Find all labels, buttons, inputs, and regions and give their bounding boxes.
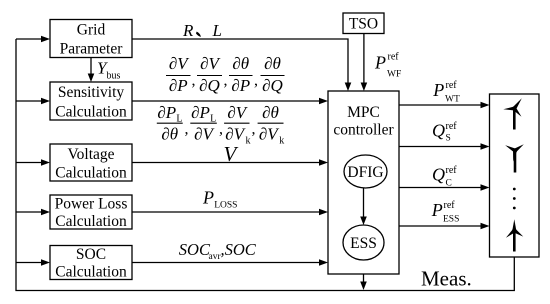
svg-text:DFIG: DFIG	[347, 164, 383, 181]
svg-text:,: ,	[254, 72, 258, 89]
svg-text:Calculation: Calculation	[55, 264, 127, 281]
svg-text:P: P	[202, 188, 214, 208]
svg-text:L: L	[212, 21, 222, 40]
svg-text:Q: Q	[432, 121, 445, 141]
svg-text:R: R	[182, 21, 194, 40]
svg-text:Meas.: Meas.	[421, 267, 472, 291]
svg-text:WF: WF	[387, 70, 401, 80]
svg-text:ref: ref	[444, 200, 456, 211]
svg-text:∂P: ∂P	[169, 76, 188, 95]
svg-text:L: L	[176, 114, 182, 125]
svg-text:LOSS: LOSS	[214, 201, 237, 211]
svg-text:L: L	[210, 114, 216, 125]
svg-text:∂V: ∂V	[227, 103, 248, 122]
svg-text:∂V: ∂V	[259, 125, 280, 144]
svg-text:V: V	[224, 142, 239, 166]
svg-text:ESS: ESS	[443, 215, 459, 225]
svg-text:,: ,	[185, 121, 189, 138]
svg-text:,SOC: ,SOC	[221, 240, 257, 259]
svg-text:P: P	[374, 53, 386, 73]
svg-text:∂P: ∂P	[231, 76, 250, 95]
svg-text:∂θ: ∂θ	[232, 54, 249, 73]
svg-text:MPC: MPC	[347, 104, 380, 121]
svg-text:P: P	[432, 80, 444, 100]
svg-text:C: C	[446, 179, 452, 189]
svg-text:Parameter: Parameter	[60, 41, 124, 58]
svg-text:SOC: SOC	[76, 246, 106, 263]
svg-text:,: ,	[224, 72, 228, 89]
svg-text:ref: ref	[446, 121, 458, 132]
svg-text:WT: WT	[445, 95, 460, 105]
svg-text:ref: ref	[446, 165, 458, 176]
svg-text:∂V: ∂V	[194, 125, 215, 144]
svg-text:TSO: TSO	[349, 16, 378, 33]
svg-text:Calculation: Calculation	[55, 104, 127, 121]
svg-text:Power Loss: Power Loss	[55, 196, 128, 213]
svg-text:∂P: ∂P	[191, 103, 210, 122]
svg-text:∂V: ∂V	[169, 54, 190, 73]
svg-text:SOC: SOC	[179, 240, 211, 259]
svg-text:∂θ: ∂θ	[161, 125, 178, 144]
svg-text:bus: bus	[107, 71, 121, 82]
svg-text:Grid: Grid	[77, 22, 106, 39]
svg-text:,: ,	[219, 121, 223, 138]
svg-text:,: ,	[192, 72, 196, 89]
svg-text:Calculation: Calculation	[55, 165, 127, 182]
svg-text:∂Q: ∂Q	[262, 76, 283, 95]
svg-text:∂θ: ∂θ	[262, 103, 279, 122]
svg-text:∂P: ∂P	[157, 103, 176, 122]
svg-text:k: k	[246, 136, 251, 147]
svg-text:ESS: ESS	[350, 235, 377, 252]
svg-text:k: k	[279, 136, 284, 147]
svg-text:ref: ref	[388, 52, 400, 63]
svg-text:∂Q: ∂Q	[199, 76, 220, 95]
svg-text:Sensitivity: Sensitivity	[58, 84, 125, 101]
svg-text:ref: ref	[446, 80, 458, 91]
svg-text:Calculation: Calculation	[55, 213, 127, 230]
svg-text:S: S	[446, 134, 451, 144]
svg-text:controller: controller	[333, 122, 394, 139]
svg-text:∂V: ∂V	[200, 54, 221, 73]
svg-text:∂θ: ∂θ	[264, 54, 281, 73]
svg-text:Q: Q	[432, 165, 445, 185]
svg-text:∂V: ∂V	[225, 125, 246, 144]
svg-text:,: ,	[252, 121, 256, 138]
svg-text:Voltage: Voltage	[67, 146, 114, 163]
svg-text:P: P	[431, 200, 443, 220]
